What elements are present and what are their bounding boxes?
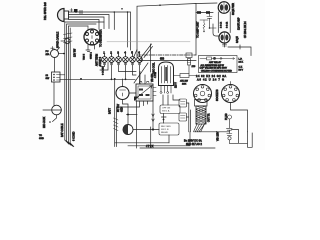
svg-text:12V 3W: 12V 3W — [75, 48, 77, 57]
svg-text:OUT TR: OUT TR — [209, 113, 211, 122]
vertical wire x153 — [152, 101, 154, 130]
wire aux boxes — [187, 103, 191, 132]
terminal strip TB1 numbers — [103, 51, 140, 55]
junction dot strip 2 — [125, 78, 127, 80]
cable ties — [114, 118, 119, 131]
svg-text:OFF ON: OFF ON — [162, 108, 171, 110]
terminal strip TB1 — [102, 54, 143, 62]
junction dot main — [80, 78, 82, 80]
junction dot x128 — [127, 114, 129, 116]
connector P2 block — [52, 72, 65, 82]
svg-text:ANT RELAY: ANT RELAY — [209, 61, 221, 64]
svg-text:6AQ5 PWR: 6AQ5 PWR — [232, 3, 235, 15]
svg-text:24 62 K2 24 G2 8A: 24 62 K2 24 G2 8A — [196, 74, 227, 78]
svg-text:STRIP 6: STRIP 6 — [99, 56, 102, 66]
wire terminal drop 2 — [100, 62, 108, 70]
bottom bus 2 — [128, 132, 190, 146]
component blob on wires — [74, 9, 78, 12]
wire terminal drop 7 — [139, 62, 141, 83]
tube V4 — [219, 32, 230, 47]
socket X2 drop wire — [231, 103, 248, 132]
svg-text:UNLESS OTHERWISE NOTED: UNLESS OTHERWISE NOTED — [201, 70, 232, 72]
svg-text:GND: GND — [39, 138, 44, 140]
svg-text:C.T.: C.T. — [239, 67, 243, 69]
wire tubes frame right — [229, 12, 231, 33]
svg-text:FU: FU — [46, 51, 49, 53]
svg-text:A6 42 U 24 7 G: A6 42 U 24 7 G — [197, 78, 225, 82]
transformer fan wires — [194, 121, 207, 132]
wire to tube V4 — [213, 24, 219, 36]
wire speaker line 3 — [69, 17, 105, 29]
bottom right bus — [195, 130, 253, 148]
svg-text:CAP VALUES IN MFD 400V: CAP VALUES IN MFD 400V — [200, 67, 228, 70]
svg-text:24 K: 24 K — [239, 62, 244, 64]
svg-text:TO: TO — [39, 135, 42, 137]
node plus mark — [70, 9, 73, 12]
wire cable corner 1 — [65, 22, 104, 140]
wire cable corner 2 — [67, 24, 96, 141]
cable bottom hooks — [65, 140, 74, 147]
amp unit top edge — [139, 58, 196, 61]
svg-text:P.M. SPKR 4x6: P.M. SPKR 4x6 — [43, 2, 47, 20]
wire cable corner 3 — [68, 26, 88, 142]
arrow marks x153 — [152, 114, 154, 122]
svg-text:3 8 12: 3 8 12 — [227, 21, 229, 28]
svg-text:TO AMP UNIT: TO AMP UNIT — [196, 21, 200, 38]
svg-text:50 V: 50 V — [239, 70, 244, 72]
svg-text:6AQ5: 6AQ5 — [235, 36, 239, 43]
part on chassis bottom edge — [186, 53, 192, 58]
wire cable line 4 — [69, 28, 71, 143]
terminal strip under ticks — [104, 63, 141, 65]
resistor R3 vertical — [188, 59, 191, 74]
svg-text:4 7 2 X: 4 7 2 X — [146, 146, 154, 148]
svg-text:SPKR CABLE: SPKR CABLE — [56, 31, 60, 48]
wire terminal drop 4 — [119, 62, 137, 71]
svg-text:2 6 14: 2 6 14 — [221, 21, 223, 28]
svg-text:15A: 15A — [46, 53, 50, 56]
wire terminal drop 3 — [111, 62, 113, 79]
socket X1 base diagram — [194, 85, 212, 103]
junction dot x153 — [152, 128, 154, 130]
wire terminal drop 1 — [100, 62, 105, 66]
fuse F1 circle — [51, 47, 65, 58]
capacitor C2 vertical — [150, 44, 152, 72]
pilot lamp DS1 — [61, 38, 70, 43]
rounded box SW-A — [160, 105, 180, 114]
svg-text:SOCKETS: SOCKETS — [216, 89, 219, 101]
svg-text:47K 2W: 47K 2W — [180, 81, 189, 83]
wire R2 top — [200, 19, 208, 21]
main wire bus — [60, 78, 135, 80]
svg-text:GEN: GEN — [121, 107, 124, 112]
output transformer T2 braid — [196, 106, 206, 124]
bottom bus 3 — [140, 127, 215, 148]
svg-text:CF 160-1 BK 24: CF 160-1 BK 24 — [245, 21, 247, 38]
svg-text:TAN 5: TAN 5 — [83, 53, 86, 60]
svg-text:TO RECEIVER: TO RECEIVER — [99, 29, 103, 47]
wire terminal diagonal — [141, 44, 153, 58]
svg-text:BATT: BATT — [109, 108, 112, 114]
svg-text:10%: 10% — [182, 83, 186, 85]
svg-text:REC SND: REC SND — [161, 126, 171, 128]
svg-text:RELAY: RELAY — [161, 131, 169, 134]
junction dot line1 — [114, 11, 116, 13]
wire tubes frame left — [217, 12, 219, 33]
svg-text:115 V: 115 V — [176, 82, 178, 88]
speaker LS1 — [58, 9, 69, 22]
svg-text:SEC 117 AC 2: SEC 117 AC 2 — [186, 143, 203, 146]
legend box — [199, 56, 238, 73]
svg-text:SW 1 B: SW 1 B — [161, 129, 169, 131]
bottom right capacitor C4 — [227, 115, 233, 143]
wire speaker line 1 — [69, 12, 131, 50]
chassis box receiver outline — [137, 3, 217, 57]
wire speaker line 4 — [69, 20, 100, 30]
relay box top wires — [140, 72, 145, 85]
aux box L1 — [179, 99, 187, 107]
resistor R4 horizontal — [174, 74, 197, 78]
svg-text:GRN 2: GRN 2 — [91, 52, 93, 59]
junction dot main 2 — [114, 78, 116, 80]
svg-text:VIB 115V: VIB 115V — [218, 131, 220, 141]
rounded box SW-B — [159, 123, 179, 135]
fold diagonal — [134, 63, 148, 83]
node dot above wire — [121, 8, 123, 10]
generator G1 box — [134, 81, 156, 101]
wire terminal drop 6 — [133, 62, 137, 75]
socket X1 base rect — [195, 100, 208, 107]
wire fuse to block — [54, 58, 56, 73]
wire block to jack — [53, 82, 55, 106]
aux box L2 — [179, 113, 187, 121]
svg-text:L.P.: L.P. — [239, 59, 243, 61]
bottom bus 1 — [115, 142, 169, 144]
junction dot SW — [163, 119, 165, 121]
rectifier can V2 — [159, 62, 174, 94]
junction dot — [75, 11, 77, 13]
wire from can pins to boxes — [163, 95, 180, 105]
svg-text:VIB 0Z4: VIB 0Z4 — [152, 73, 154, 82]
jack J2 — [43, 105, 62, 123]
wire under tube V4 — [228, 45, 251, 56]
enclosure left edge — [136, 101, 138, 148]
wire branch vertical — [127, 12, 129, 47]
junction dot strip 1 — [111, 78, 113, 80]
wire between SW boxes — [162, 114, 167, 124]
tube V1 envelope — [116, 79, 136, 125]
connector J1 — [84, 26, 100, 45]
fold corner chassis — [134, 50, 138, 58]
svg-text:MIC JACK: MIC JACK — [43, 116, 46, 128]
wire terminal drop 5 — [125, 62, 127, 79]
svg-text:BAT CABLE: BAT CABLE — [61, 123, 64, 137]
svg-text:SW 1 A: SW 1 A — [162, 110, 170, 113]
tube V3 top — [218, 2, 230, 14]
wire drop left pair b — [117, 101, 148, 147]
svg-text:4 PIN: 4 PIN — [155, 72, 157, 78]
wire speaker line 2 — [69, 15, 110, 29]
wire drop left pair — [114, 79, 116, 146]
wire drop to connector a — [113, 12, 115, 30]
capacitor C1 ticks — [80, 11, 82, 14]
faint crease line — [107, 41, 190, 43]
wire SWB bottom drop — [168, 135, 170, 143]
junction cross — [127, 114, 138, 116]
resistor R2 — [203, 20, 205, 32]
svg-text:6 COND: 6 COND — [103, 66, 105, 75]
capacitor C3 — [207, 12, 216, 29]
junction dot branch — [127, 11, 129, 13]
svg-text:OSC COIL: OSC COIL — [153, 62, 156, 74]
svg-text:ALL RESISTORS 1/2 W: ALL RESISTORS 1/2 W — [201, 64, 225, 67]
connector J1 pin stubs — [86, 45, 95, 52]
cable lacing ticks — [64, 33, 73, 43]
svg-text:6 COND: 6 COND — [73, 131, 76, 141]
svg-text:12AU7 AMP: 12AU7 AMP — [238, 17, 241, 30]
socket X2 base diagram — [222, 82, 240, 103]
ammeter M1 — [123, 125, 159, 135]
